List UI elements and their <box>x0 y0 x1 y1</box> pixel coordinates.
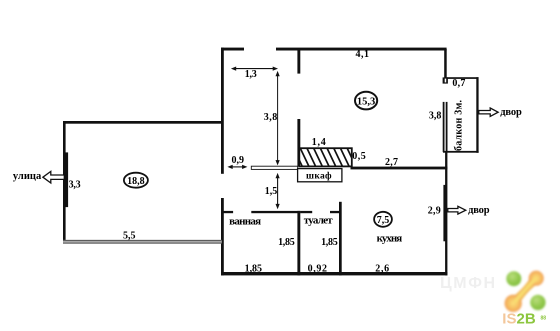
svg-text:туалет: туалет <box>304 215 333 227</box>
svg-text:ЦМФН: ЦМФН <box>440 275 495 292</box>
svg-text:1,4: 1,4 <box>312 137 326 148</box>
closet (hatched) <box>293 147 357 168</box>
svg-text:улица: улица <box>13 171 42 182</box>
left room bottom window (gray bar) <box>63 240 222 244</box>
svg-text:15,3: 15,3 <box>357 97 375 108</box>
dim 1,5 vertical arrow <box>276 173 280 209</box>
svg-text:5,5: 5,5 <box>123 231 136 242</box>
svg-text:1,85: 1,85 <box>245 264 262 275</box>
balcony door jamb <box>443 77 448 83</box>
wall: balcony top <box>447 77 479 79</box>
balcony window double line <box>443 102 448 152</box>
wall: toilet top wall seg2 <box>330 211 341 213</box>
svg-text:0,92: 0,92 <box>308 264 327 275</box>
svg-text:1,5: 1,5 <box>265 186 278 197</box>
wall: left room top wall <box>63 121 222 124</box>
wall: hallway/room15 partition lower <box>297 119 300 167</box>
svg-text:88: 88 <box>541 315 547 321</box>
svg-text:18,8: 18,8 <box>127 176 145 187</box>
closet label box шкаф <box>298 169 342 182</box>
svg-text:1,85: 1,85 <box>278 237 295 248</box>
wall: bottom wall <box>221 272 447 275</box>
wall: bathroom top wall seg2 <box>251 211 300 213</box>
svg-text:0,7: 0,7 <box>452 78 465 89</box>
wall: bathroom/toilet partition <box>297 211 300 276</box>
wall: room15 right wall upper <box>444 49 447 78</box>
dim 3,8 vertical arrow (hallway) <box>276 71 280 165</box>
shelf line in hallway <box>251 166 297 169</box>
block arrow двор (balcony) <box>479 108 498 116</box>
svg-text:7,5: 7,5 <box>377 215 390 226</box>
svg-text:IS2B: IS2B <box>502 311 536 328</box>
wall: top wall left segment <box>221 48 244 51</box>
block arrow улица <box>43 171 64 183</box>
svg-text:шкаф: шкаф <box>306 171 332 182</box>
block arrow двор (kitchen) <box>448 206 466 214</box>
ellipse 7,5 <box>374 212 392 227</box>
svg-text:3,8: 3,8 <box>264 112 278 123</box>
svg-text:кухня: кухня <box>377 232 403 244</box>
logo IS2B <box>502 271 546 328</box>
wall: bathroom top wall seg1 <box>221 211 233 213</box>
svg-text:1,3: 1,3 <box>245 69 257 80</box>
svg-text:2,7: 2,7 <box>385 157 398 168</box>
wall: toilet top wall seg1 <box>300 211 312 213</box>
wall: kitchen top wall <box>351 167 448 170</box>
svg-text:0,9: 0,9 <box>231 155 244 166</box>
wall: hallway/bathroom left wall lower <box>221 198 224 275</box>
watermark <box>440 275 495 292</box>
kitchen window bar <box>443 185 446 241</box>
wall: balcony bottom <box>443 151 479 153</box>
svg-text:ванная: ванная <box>229 215 261 227</box>
ellipse 18,8 <box>124 173 148 188</box>
svg-text:0,5: 0,5 <box>352 151 366 162</box>
dim 1,3 arrow <box>231 67 278 71</box>
svg-text:балкон 3м.: балкон 3м. <box>454 100 465 152</box>
svg-text:4,1: 4,1 <box>356 49 370 60</box>
ellipse 15,3 <box>355 92 377 110</box>
wall: top wall right segment <box>276 48 447 51</box>
window bar on left room wall <box>65 152 68 207</box>
svg-text:двор: двор <box>500 107 522 118</box>
svg-text:3,3: 3,3 <box>69 180 81 191</box>
wall: right wall below balcony (kitchen right wall) <box>445 152 447 275</box>
svg-text:3,8: 3,8 <box>429 111 442 122</box>
wall: hallway left wall upper <box>221 48 224 174</box>
svg-text:двор: двор <box>468 205 490 216</box>
wall: toilet/kitchen partition <box>339 202 342 276</box>
svg-text:2,9: 2,9 <box>428 205 441 216</box>
wall: balcony right wall <box>476 77 478 153</box>
wall: hallway/room15 partition upper <box>297 49 300 74</box>
wall: left room left wall <box>63 121 66 244</box>
svg-text:2,6: 2,6 <box>375 263 389 274</box>
svg-text:1,85: 1,85 <box>321 237 338 248</box>
dim 0,9 arrow <box>227 165 247 169</box>
